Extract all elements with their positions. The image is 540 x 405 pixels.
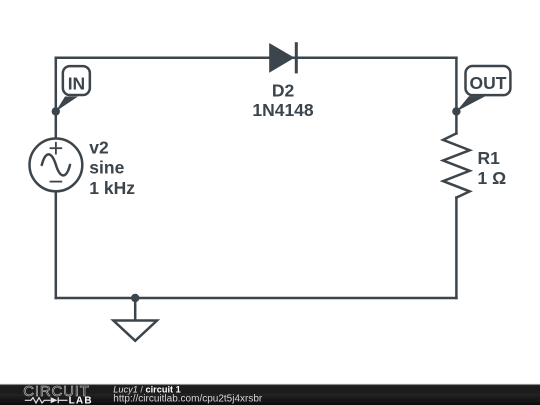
wire right upper — [455, 58, 458, 134]
svg-text:LAB: LAB — [69, 395, 93, 405]
svg-text:R1: R1 — [478, 148, 501, 168]
svg-text:sine: sine — [89, 158, 124, 178]
svg-text:http://circuitlab.com/cpu2t5j4: http://circuitlab.com/cpu2t5j4xrsbr — [113, 393, 263, 404]
wire right lower — [455, 198, 458, 298]
wire top — [56, 56, 457, 59]
wire left — [55, 58, 58, 138]
svg-text:OUT: OUT — [469, 73, 506, 93]
footer logo symbol — [25, 397, 68, 403]
svg-text:D2: D2 — [272, 81, 295, 101]
svg-text:1N4148: 1N4148 — [252, 100, 314, 120]
diode D2 — [269, 42, 296, 73]
junction node OUT — [452, 107, 460, 115]
svg-text:IN: IN — [68, 73, 86, 93]
node flag OUT — [456, 66, 510, 111]
wire bottom — [56, 297, 457, 300]
footer bar — [0, 385, 540, 405]
node flag IN — [56, 66, 90, 111]
junction node IN — [52, 107, 60, 115]
svg-text:1 kHz: 1 kHz — [89, 178, 135, 198]
svg-text:1 Ω: 1 Ω — [478, 168, 507, 188]
wire left lower — [55, 192, 58, 298]
junction node at ground — [131, 294, 139, 302]
ground — [113, 298, 157, 341]
resistor R1 — [443, 133, 470, 197]
svg-text:v2: v2 — [89, 138, 109, 158]
voltage source V2 (sine) — [30, 139, 83, 192]
